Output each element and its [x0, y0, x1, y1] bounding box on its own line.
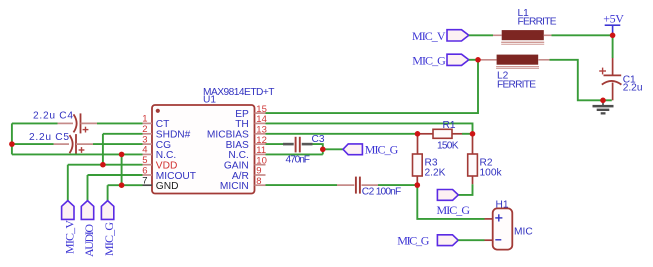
- junction R1 left: [415, 131, 421, 137]
- capacitor C1 2.2u polarized: [599, 58, 642, 100]
- svg-text:CT: CT: [156, 119, 170, 130]
- svg-text:U1: U1: [203, 95, 216, 106]
- wire VDD row: [68, 164, 143, 166]
- ferrite bead L1: [501, 8, 557, 44]
- pin 14 TH: [235, 114, 267, 130]
- svg-text:2.2u C5: 2.2u C5: [29, 132, 69, 143]
- pin lead L2 right: [538, 59, 549, 61]
- pin 10 GAIN: [224, 155, 267, 171]
- svg-text:470nF: 470nF: [286, 155, 311, 166]
- wire to MIC_G port (C3): [323, 148, 343, 150]
- pin lead H1 plus: [485, 218, 493, 220]
- wire left bus vertical: [11, 123, 13, 154]
- wire MIC_V to L1: [469, 34, 493, 36]
- svg-text:2.2u C4: 2.2u C4: [33, 111, 73, 122]
- wire EP net: vertical from L2 node down and left to chip pin 15: [266, 60, 479, 113]
- connector port MIC_G (top): [412, 53, 469, 67]
- svg-text:MICIN: MICIN: [220, 181, 249, 192]
- pin 8 MICIN: [220, 176, 266, 192]
- pin lead L1 right: [544, 34, 552, 36]
- svg-text:R1: R1: [443, 120, 456, 131]
- svg-text:C2: C2: [362, 186, 375, 197]
- svg-text:TH: TH: [235, 119, 249, 130]
- connector port MIC_G (middle): [437, 190, 471, 217]
- junction VDD node: [100, 162, 106, 168]
- wire MIC_G port to H1 minus: [458, 239, 484, 241]
- pin lead L1 left: [493, 34, 502, 36]
- junction ground node: [600, 98, 606, 104]
- wire SHDN# row: [103, 133, 143, 135]
- svg-text:+5V: +5V: [603, 12, 624, 26]
- svg-text:2.2u: 2.2u: [623, 83, 643, 94]
- capacitor C2 100nF: [337, 177, 401, 198]
- pin 9 A/R: [232, 166, 266, 182]
- connector port MIC_V (top): [412, 29, 469, 43]
- pin 2 SHDN#: [142, 124, 190, 141]
- pin 7 GND: [142, 176, 178, 193]
- wire C5 to chip pin3: [93, 143, 143, 145]
- wire GND row: [108, 184, 143, 186]
- supply symbol +5V: [603, 12, 624, 35]
- junction R1 right: [470, 131, 476, 137]
- connector port MIC_G (bottom right): [397, 233, 458, 247]
- svg-text:FERRITE: FERRITE: [497, 80, 536, 91]
- wire MIC_G port vertical: [107, 185, 109, 201]
- resistor R3 2.2K: [413, 134, 446, 185]
- wire C5 row left: [12, 143, 54, 145]
- pin 11 N.C.: [228, 145, 266, 161]
- wire N.C. row pin11: [266, 153, 323, 155]
- svg-text:MIC_G: MIC_G: [437, 203, 471, 217]
- junction C3 node: [320, 147, 326, 153]
- svg-text:FERRITE: FERRITE: [518, 17, 557, 28]
- wire node down to H1 plus: [417, 185, 484, 219]
- junction GND node: [119, 182, 125, 188]
- svg-text:7: 7: [142, 176, 147, 187]
- wire MICBIAS net: chip pin13 right to R1 left node: [266, 133, 418, 135]
- pin 3 CG: [142, 134, 171, 151]
- svg-text:MIC_V: MIC_V: [412, 29, 446, 43]
- svg-text:GND: GND: [156, 181, 179, 192]
- svg-text:MIC_G: MIC_G: [397, 233, 430, 247]
- wire MIC_G to L2 node: [469, 59, 478, 61]
- svg-text:H1: H1: [496, 199, 509, 210]
- wire MIC_V port vertical: [67, 165, 69, 201]
- svg-text:MIC: MIC: [514, 227, 533, 238]
- wire L1 to +5V node: [552, 34, 613, 36]
- svg-text:150K: 150K: [437, 141, 459, 152]
- svg-text:100nF: 100nF: [376, 186, 402, 197]
- connector port MIC_G (C3): [343, 142, 399, 156]
- wire +5V down to C1: [612, 35, 614, 58]
- svg-text:2.2K: 2.2K: [425, 168, 446, 179]
- wire ground vertical to pin7 row: [121, 154, 123, 185]
- wire C2 to R3 bottom node: [378, 184, 417, 186]
- svg-text:1: 1: [142, 114, 147, 125]
- connector port MIC_G (bottom left): [101, 201, 116, 256]
- wire MICIN net: chip pin8 to C2: [266, 184, 338, 186]
- wire TH net: chip pin14 right then down to R1 right node: [266, 123, 473, 133]
- svg-text:100k: 100k: [480, 168, 503, 179]
- svg-text:MIC_G: MIC_G: [412, 53, 446, 67]
- capacitor C3 470nF: [283, 134, 325, 166]
- ground symbol: [593, 100, 614, 114]
- wire pin4 row (ground): [12, 153, 143, 155]
- wire BIAS net: chip pin12 to C3: [266, 143, 284, 145]
- wire AUDIO port vertical: [87, 175, 89, 201]
- wire R2 bottom to MIC_G port (middle): [458, 184, 472, 195]
- wire C4 to chip pin1: [97, 122, 143, 124]
- pin 1 CT: [142, 114, 169, 131]
- resistor R2 100k: [468, 134, 503, 185]
- svg-text:14: 14: [256, 114, 267, 125]
- junction +5V node: [610, 33, 616, 39]
- wire MICOUT row: [88, 174, 143, 176]
- svg-text:AUDIO: AUDIO: [82, 224, 96, 257]
- connector port MIC_V (bottom): [62, 201, 77, 254]
- pin 5 VDD: [142, 155, 177, 172]
- svg-text:8: 8: [256, 176, 261, 187]
- pin 4 N.C.: [142, 145, 176, 162]
- IC U1 MAX9814ETD+T body: [152, 87, 275, 194]
- junction C5 left node: [9, 141, 15, 147]
- junction C2/R3/H1 node: [415, 182, 421, 188]
- pin 15 EP: [235, 104, 267, 120]
- svg-text:MIC_G: MIC_G: [365, 142, 399, 156]
- ferrite bead L2: [496, 55, 539, 91]
- svg-text:MIC_V: MIC_V: [62, 220, 76, 254]
- wire C4 row left: [12, 122, 58, 124]
- wire L2 to ground corner: [550, 60, 612, 101]
- pin lead L2 left: [478, 59, 497, 61]
- pin 13 MICBIAS: [207, 125, 267, 141]
- connector port AUDIO (bottom): [81, 201, 96, 257]
- resistor R1 150K: [418, 120, 473, 152]
- pin 6 MICOUT: [142, 165, 196, 182]
- wire SHDN# to VDD vertical: [102, 134, 104, 165]
- pin lead H1 minus: [485, 239, 493, 241]
- junction MIC_G/L2/EP node: [475, 57, 481, 63]
- junction pin4/ground vertical: [119, 152, 125, 158]
- capacitor C5 2.2u polarized: [29, 132, 93, 154]
- capacitor C4 2.2u polarized: [33, 111, 97, 134]
- pin 12 BIAS: [226, 135, 267, 151]
- microphone H1 MIC: [493, 199, 533, 249]
- wire C3 right corner down to N.C. row: [313, 144, 323, 154]
- svg-text:MIC_G: MIC_G: [102, 222, 116, 256]
